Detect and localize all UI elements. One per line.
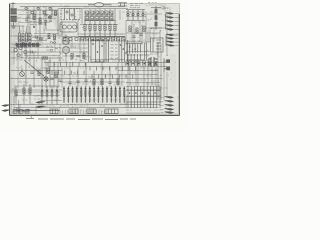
resistor R31 xyxy=(23,88,25,94)
resistor R8 xyxy=(48,34,50,39)
AGC strip row 2 xyxy=(126,43,147,60)
terminal box TB3 xyxy=(87,109,96,114)
power transformer T1 primary xyxy=(11,9,17,14)
capacitor C15 xyxy=(132,36,135,37)
electro bank mid dots xyxy=(63,96,125,98)
bus tap ticks xyxy=(48,63,136,79)
capacitor C16 xyxy=(139,34,142,35)
resistor R27 xyxy=(93,80,95,86)
bottom connector J23 xyxy=(165,109,174,111)
value labels right xyxy=(128,41,157,62)
resistor column R10-R16 xyxy=(84,21,116,39)
rectifier chain V2 xyxy=(150,6,162,30)
transformer labels xyxy=(151,81,160,85)
output connector J1 xyxy=(166,13,174,15)
capacitor C7 xyxy=(30,72,33,73)
resistor R2 xyxy=(39,18,41,24)
resistor bank RB1 xyxy=(85,11,113,15)
value labels top-left xyxy=(25,22,47,34)
output connector J7 xyxy=(166,38,174,40)
power supply cluster xyxy=(126,86,161,108)
corner labels BL xyxy=(16,104,34,112)
margin connector P1 xyxy=(2,105,11,107)
output connector J3 xyxy=(166,21,174,23)
resistor R40 xyxy=(129,26,131,32)
center vertical group right xyxy=(119,40,127,62)
right scan shadow xyxy=(170,54,176,94)
output connector J4 xyxy=(166,25,174,27)
bottom connector J24 xyxy=(165,112,174,114)
band filler row xyxy=(48,36,78,40)
video strip ticks xyxy=(126,61,157,66)
electrolytic bank C30-C44 xyxy=(63,86,125,103)
output connector J8 xyxy=(166,41,174,43)
filter choke L2 xyxy=(126,10,145,21)
volume pot VR1 xyxy=(20,69,25,77)
caption text xyxy=(26,115,136,120)
wire drop set vertical xyxy=(14,6,170,114)
capacitor C11 xyxy=(84,80,87,81)
resistor R33 xyxy=(47,68,49,74)
power transformer T1 secondary xyxy=(11,16,17,21)
deflection box U2 xyxy=(151,38,164,52)
center scan shadow xyxy=(75,82,81,114)
output connector J9 xyxy=(166,45,174,47)
resistor R4 xyxy=(22,34,24,43)
left scan shadow xyxy=(10,13,23,103)
corner terminal row xyxy=(13,110,29,114)
chassis tick marks xyxy=(60,110,107,114)
AGC strip row xyxy=(126,44,143,54)
schematic sheet xyxy=(9,3,180,116)
capacitor C1 xyxy=(26,16,29,17)
capacitor C2 xyxy=(44,15,47,16)
ground symbol G1 xyxy=(11,22,15,29)
center vertical runs xyxy=(89,38,109,62)
capacitor C6 xyxy=(28,51,37,54)
resistor R35 xyxy=(71,54,73,59)
fuse F1 xyxy=(88,3,112,7)
diagonal fold shading xyxy=(49,9,72,48)
capacitor C5 xyxy=(20,43,29,46)
capacitor C18 xyxy=(58,80,61,81)
connector stub marks xyxy=(162,7,165,10)
resistor R3 xyxy=(19,33,21,42)
value labels center xyxy=(92,41,110,62)
value labels mid-left xyxy=(16,39,50,68)
margin connector P2 xyxy=(2,110,11,112)
input connector J10 xyxy=(36,102,45,104)
terminal box TB4 xyxy=(105,109,118,114)
scan grain overlay xyxy=(9,3,180,116)
output connector J2 xyxy=(166,17,174,19)
tube socket V1 xyxy=(60,22,77,32)
driver row marks xyxy=(70,60,87,61)
value labels scatter xyxy=(14,6,178,110)
connector feed wire right xyxy=(165,35,167,46)
triode V4 xyxy=(63,47,70,57)
resistor R26 xyxy=(117,79,119,85)
resistor R20 xyxy=(42,57,48,59)
capacitor C13 xyxy=(108,82,111,83)
video IF box U3 xyxy=(91,40,104,62)
wire T1 to bus xyxy=(17,10,24,18)
coil L3 xyxy=(50,42,56,43)
resistor R41 xyxy=(136,28,138,34)
output transformer T2 xyxy=(148,57,158,67)
oscillator coil cluster xyxy=(14,44,27,56)
diagonal wire AB xyxy=(24,60,44,76)
bottom-left caps xyxy=(14,109,60,111)
output connector J5 xyxy=(166,29,174,31)
capacitor bank C20-C23 xyxy=(41,86,58,105)
terminal box TB1 xyxy=(50,109,58,114)
value labels top xyxy=(130,3,143,8)
resistor R36 xyxy=(83,54,85,59)
resistor R21 xyxy=(38,70,40,76)
resistor R32 xyxy=(29,88,31,94)
terminal strip TS1 xyxy=(15,43,41,46)
resistor R7 xyxy=(55,11,57,16)
resistor R6 xyxy=(29,34,31,43)
resistor R25 xyxy=(101,79,103,85)
value labels top-right xyxy=(148,3,169,9)
resistor bank RB2 xyxy=(85,16,113,20)
resistor R30 xyxy=(15,90,17,96)
speaker terminal SP1 xyxy=(164,58,170,72)
node dot A xyxy=(33,26,35,28)
resistor R9 xyxy=(54,35,56,40)
mini cluster top-left xyxy=(25,7,52,21)
paper mottle xyxy=(10,28,171,112)
damper diode row D1-D9 xyxy=(78,36,125,41)
detector diode D10 xyxy=(49,16,52,19)
input connector J11 xyxy=(36,106,45,108)
page background xyxy=(0,0,186,130)
center label column xyxy=(111,41,118,59)
antenna lead xyxy=(11,2,16,8)
switch S1 xyxy=(118,3,127,6)
bottom connector J22 xyxy=(165,105,174,107)
capacitor C19 xyxy=(76,56,79,57)
resistor R5 xyxy=(26,33,28,42)
resistor feed wires xyxy=(20,26,31,34)
terminal box TB2 xyxy=(69,109,78,114)
output connector J6 xyxy=(166,34,174,36)
value labels lower-left xyxy=(18,82,40,99)
capacitor C12 xyxy=(76,81,79,82)
triode V3 xyxy=(63,35,70,45)
IF transformer can U1 xyxy=(61,9,80,20)
pilot lamp DS1 xyxy=(44,77,48,81)
wire row mid xyxy=(62,55,88,57)
wire bus set horizontal xyxy=(11,5,171,113)
mini cluster R-right xyxy=(34,36,43,42)
corner wires BL xyxy=(14,96,19,114)
mixer row marks xyxy=(46,47,58,51)
trimmer C4 xyxy=(44,21,47,27)
resistor R42 xyxy=(143,26,145,32)
capacitor C10 xyxy=(68,82,71,83)
resistor R1 xyxy=(33,14,35,20)
bottom connector J20 xyxy=(165,97,174,99)
bottom connector J21 xyxy=(165,101,174,103)
electro bank lower bars xyxy=(63,98,125,102)
scan specks xyxy=(11,5,178,114)
capacitor C17 xyxy=(50,78,53,79)
resistor R34 xyxy=(55,72,57,78)
